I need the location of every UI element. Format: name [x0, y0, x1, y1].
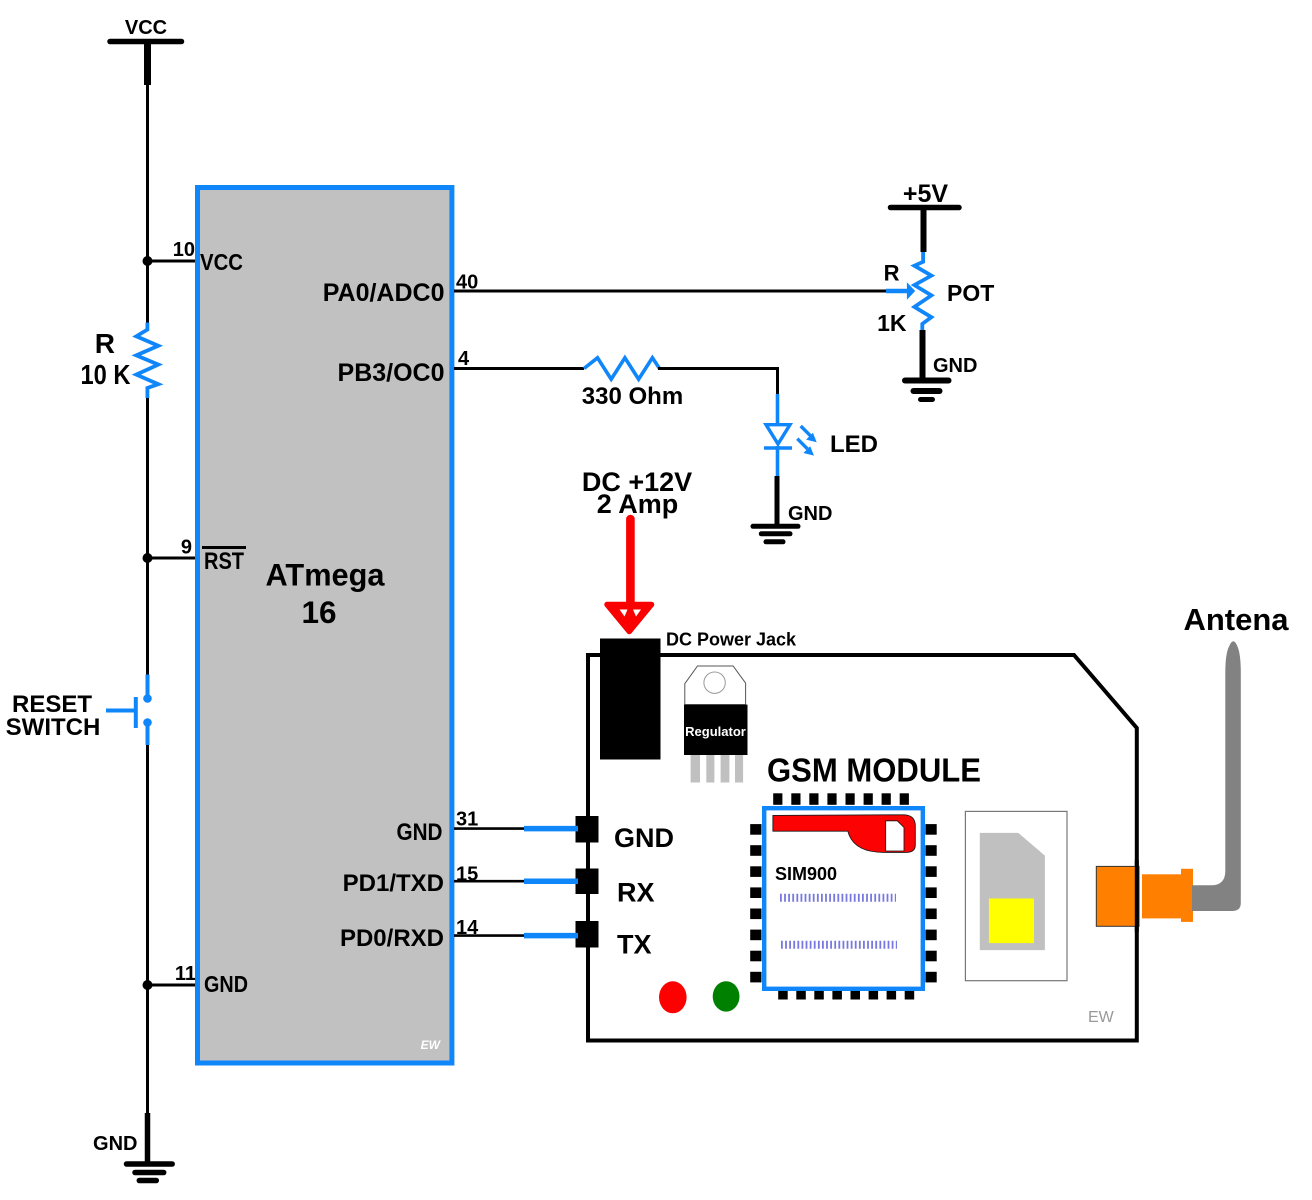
voltage regulator U2 [684, 666, 748, 783]
DC power jack J1 [600, 630, 797, 760]
wire pin 15 to RX terminal [454, 880, 578, 883]
power symbol VCC [110, 17, 182, 85]
antenna [1192, 641, 1241, 911]
IC U1 ATmega 16 [198, 188, 452, 1064]
antenna connector orange [1096, 860, 1193, 932]
ground GND of LED [753, 476, 832, 542]
SIM900 chip U3 [750, 793, 937, 999]
svg-text:DC Power Jack: DC Power Jack [666, 630, 797, 650]
label DC +12V 2 Amp [582, 467, 692, 519]
power symbol +5V [891, 180, 960, 252]
svg-text:+5V: +5V [903, 180, 949, 208]
svg-text:Regulator: Regulator [685, 724, 746, 739]
svg-text:GND: GND [93, 1133, 137, 1155]
svg-text:PB3/OC0: PB3/OC0 [338, 359, 445, 387]
resistor R 10K [81, 323, 159, 399]
svg-text:GND: GND [614, 823, 674, 853]
SIM card holder [965, 811, 1067, 980]
svg-text:PD0/RXD: PD0/RXD [340, 925, 444, 952]
indicator LED green [713, 981, 740, 1011]
LED D1 [764, 425, 878, 458]
svg-text:2 Amp: 2 Amp [597, 489, 679, 519]
wire to pin 9 [148, 557, 197, 560]
svg-text:POT: POT [947, 280, 994, 306]
wire switch to ground [146, 745, 149, 1113]
wire to pin 11 [148, 984, 197, 987]
ground GND bottom left [93, 1113, 172, 1181]
node junction pin10 [143, 256, 153, 266]
svg-text:EW: EW [1088, 1009, 1115, 1026]
terminal TX [576, 921, 599, 948]
svg-text:16: 16 [301, 594, 336, 630]
svg-text:TX: TX [617, 930, 652, 960]
svg-text:9: 9 [181, 537, 192, 559]
svg-text:EW: EW [421, 1038, 442, 1052]
terminal GND [576, 816, 599, 843]
svg-text:GND: GND [933, 355, 977, 377]
svg-text:RX: RX [617, 878, 655, 908]
wire junction to resistor R [146, 261, 149, 323]
svg-text:10: 10 [173, 239, 195, 261]
power input arrow red [607, 519, 652, 632]
resistor 330 Ohm [582, 358, 683, 410]
svg-text:PD1/TXD: PD1/TXD [343, 870, 444, 897]
wiper arrow of potentiometer [886, 282, 915, 299]
wire VCC rail top [146, 85, 149, 261]
svg-text:R: R [95, 328, 115, 359]
svg-text:GND: GND [204, 971, 248, 997]
wire to pin 10 [148, 260, 197, 263]
wire pin 14 to TX terminal [454, 934, 578, 937]
svg-text:VCC: VCC [125, 17, 167, 39]
svg-text:11: 11 [175, 963, 196, 985]
svg-text:LED: LED [830, 431, 878, 458]
svg-text:VCC: VCC [200, 249, 243, 275]
svg-text:330 Ohm: 330 Ohm [582, 383, 683, 410]
wire corner down [776, 369, 779, 395]
potentiometer R 1K POT [877, 252, 994, 336]
indicator LED red [659, 981, 687, 1013]
svg-text:10 K: 10 K [81, 359, 131, 390]
node junction pin9 [143, 553, 153, 563]
svg-text:1K: 1K [877, 310, 907, 336]
svg-text:SWITCH: SWITCH [6, 714, 101, 741]
node junction pin11 [143, 980, 153, 990]
svg-text:SIM900: SIM900 [775, 864, 837, 884]
ground GND of potentiometer [905, 330, 977, 400]
svg-text:4: 4 [458, 348, 470, 370]
terminal RX [576, 869, 599, 895]
wire pin 4 to resistor 330 [454, 367, 584, 370]
wire pin 40 to potentiometer [454, 290, 887, 293]
svg-text:GSM MODULE: GSM MODULE [767, 752, 981, 789]
label RESET SWITCH [6, 691, 101, 741]
svg-text:ATmega: ATmega [266, 557, 385, 593]
wire resistor to pin9 junction [146, 398, 149, 558]
svg-text:GND: GND [788, 503, 832, 525]
wire LED cathode [776, 446, 780, 476]
svg-text:Antena: Antena [1183, 602, 1289, 637]
svg-text:GND: GND [397, 819, 443, 846]
wire pin 31 to GND terminal [454, 827, 578, 830]
GSM module board outline [588, 655, 1137, 1041]
reset switch SW1 [106, 675, 152, 746]
wire blue to LED anode [776, 394, 780, 424]
svg-text:RST: RST [204, 548, 244, 575]
svg-text:PA0/ADC0: PA0/ADC0 [323, 279, 445, 307]
svg-text:R: R [884, 261, 900, 286]
wire resistor to LED corner [658, 367, 779, 370]
wire junction to switch [146, 558, 149, 675]
svg-text:31: 31 [456, 809, 478, 831]
